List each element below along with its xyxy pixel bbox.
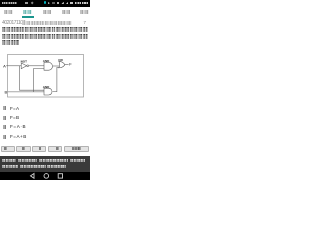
svg-text:A: A bbox=[3, 63, 6, 68]
svg-text:AND: AND bbox=[43, 59, 50, 63]
svg-text:B: B bbox=[5, 89, 8, 94]
svg-text:NOT: NOT bbox=[21, 60, 28, 64]
svg-text:OR: OR bbox=[58, 58, 63, 62]
svg-text:F: F bbox=[69, 61, 72, 66]
svg-text:AND: AND bbox=[43, 85, 50, 89]
